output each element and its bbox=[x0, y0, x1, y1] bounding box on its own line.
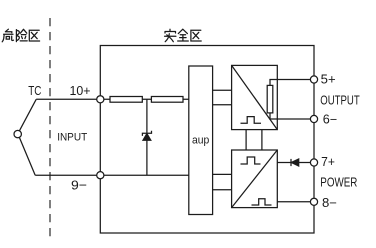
svg-text:OUTPUT: OUTPUT bbox=[320, 93, 360, 107]
危 bbox=[5, 29, 11, 33]
svg-text:aup: aup bbox=[192, 134, 209, 146]
安 bbox=[165, 29, 176, 33]
svg-text:10+: 10+ bbox=[70, 83, 91, 98]
terminal 6- bbox=[310, 115, 317, 122]
diode D2 (reverse protection) bbox=[290, 159, 292, 166]
barrier enclosure box bbox=[100, 46, 314, 234]
wire T1 to 6- bbox=[270, 113, 310, 119]
resistor R2 bbox=[151, 97, 183, 103]
amplifier block U1 (aup) bbox=[189, 66, 213, 215]
svg-text:7+: 7+ bbox=[321, 155, 335, 169]
svg-text:INPUT: INPUT bbox=[57, 131, 87, 143]
svg-text:POWER: POWER bbox=[320, 175, 357, 189]
wire TC to 9- (bottom) bbox=[35, 174, 100, 176]
wire aup to T1 lower bbox=[213, 104, 232, 106]
dc-dc converter T2 (power isolator) bbox=[232, 150, 278, 208]
wire aup to T2 lower bbox=[213, 189, 232, 191]
险 bbox=[16, 30, 19, 42]
boundary dashed line (hazard/safe separation) bbox=[49, 18, 51, 241]
wire T2 to 7+ bbox=[277, 162, 310, 164]
wire TC diagonal bottom bbox=[19, 137, 35, 175]
wire input bottom row bbox=[100, 174, 189, 176]
区 bbox=[191, 30, 201, 41]
interconnect wire T1-T2 left bbox=[245, 130, 247, 150]
svg-text:9−: 9− bbox=[71, 178, 87, 193]
wire TC to 10+ (top) bbox=[36, 98, 100, 100]
区 bbox=[29, 30, 39, 41]
thermocouple junction circle bbox=[14, 130, 21, 137]
zener diode D1 bbox=[146, 99, 148, 133]
node 9- terminal bbox=[97, 172, 104, 179]
resistor R1 bbox=[110, 97, 142, 103]
square wave symbol T2 output bbox=[252, 199, 272, 205]
svg-text:5+: 5+ bbox=[321, 73, 336, 87]
square wave symbol T2 input bbox=[241, 157, 261, 164]
svg-text:8−: 8− bbox=[322, 196, 337, 210]
hazardous area label 危险区 bbox=[2, 29, 39, 42]
wire aup to T2 upper bbox=[213, 173, 232, 175]
interconnect wire T1-T2 right bbox=[261, 130, 263, 150]
terminal 5+ bbox=[310, 76, 317, 83]
square wave symbol T1 bbox=[241, 117, 262, 124]
dc-dc converter T1 (output isolator) bbox=[232, 65, 278, 129]
wire input top row bbox=[100, 98, 189, 100]
resistor R3 (in T1) bbox=[267, 85, 273, 113]
wire R3 to 5+ bbox=[270, 80, 310, 86]
terminal 7+ bbox=[310, 159, 317, 166]
terminal 8- bbox=[310, 198, 317, 205]
wire aup to T1 upper bbox=[213, 89, 232, 91]
全 bbox=[178, 29, 187, 33]
svg-text:6−: 6− bbox=[323, 112, 337, 126]
node 10+ terminal bbox=[97, 96, 104, 103]
safe area label 安全区 bbox=[165, 29, 202, 42]
wire TC diagonal top bbox=[19, 99, 36, 131]
svg-text:TC: TC bbox=[28, 83, 41, 98]
wire T2 to 8- bbox=[277, 201, 310, 203]
